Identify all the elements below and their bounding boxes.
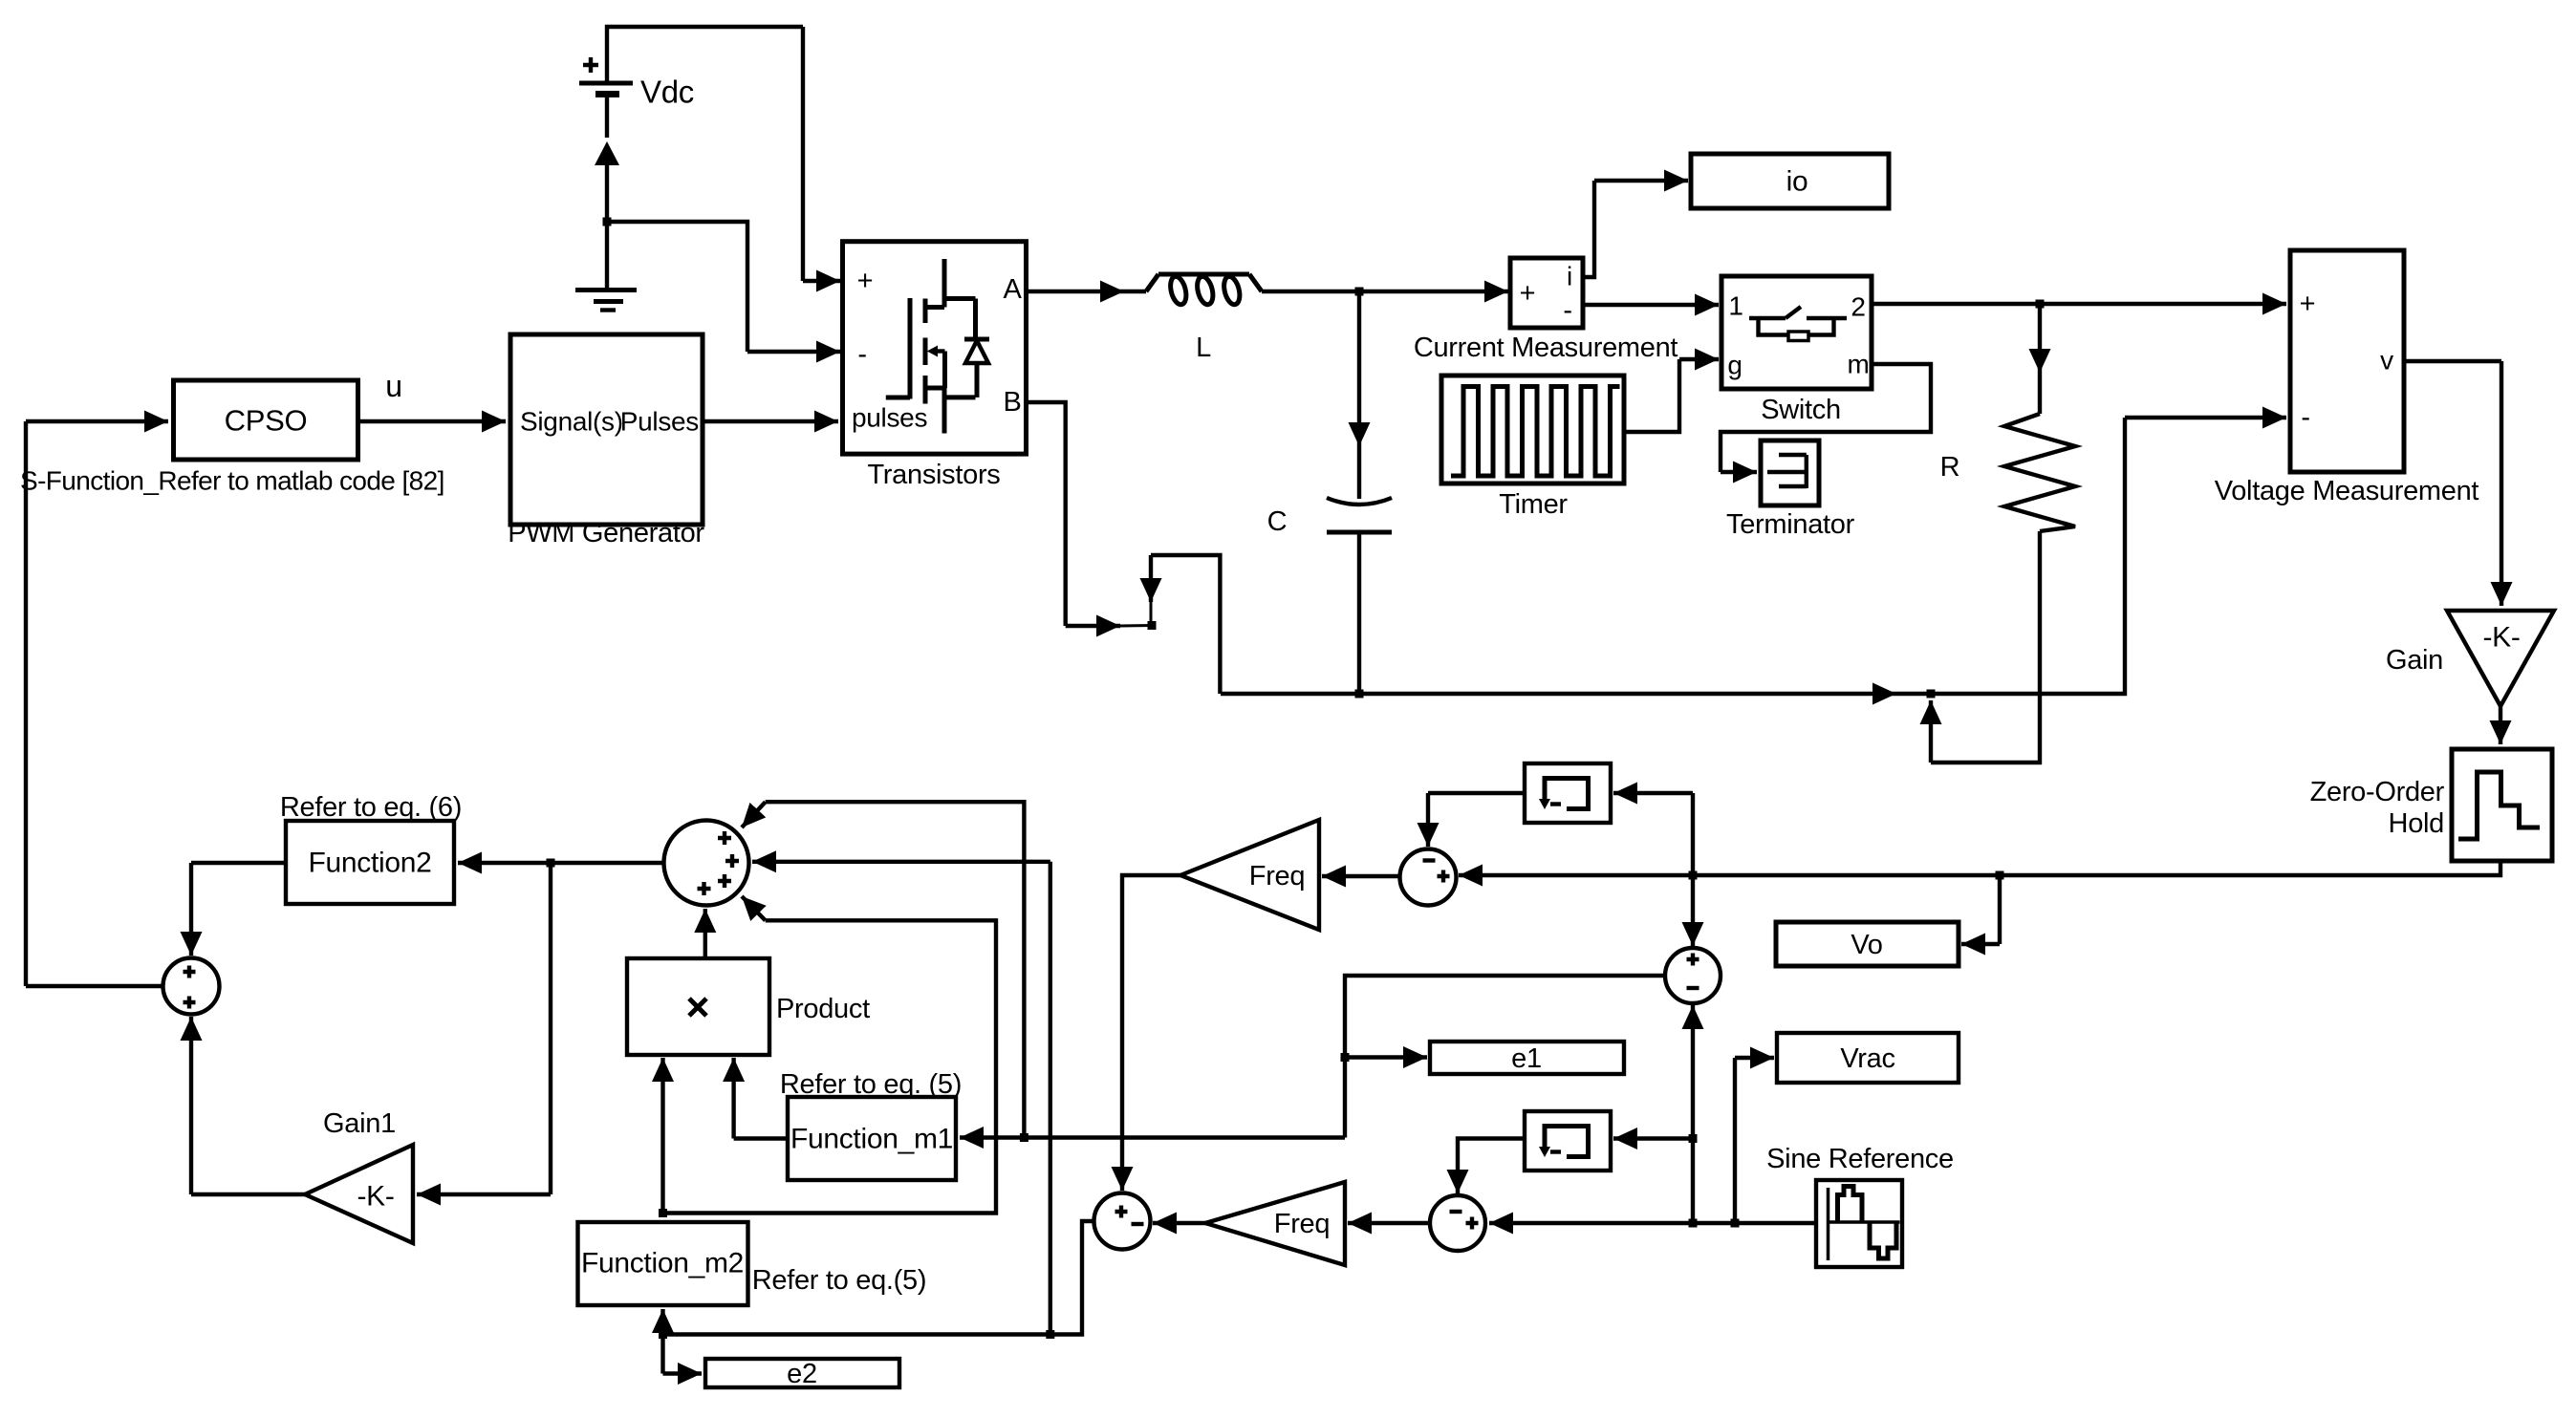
svg-text:Current Measurement: Current Measurement (1414, 333, 1678, 363)
svg-text:Gain: Gain (2386, 645, 2443, 676)
svg-text:Function_m1: Function_m1 (790, 1124, 953, 1155)
svg-text:Switch: Switch (1761, 395, 1841, 425)
svg-text:Refer to eq. (6): Refer to eq. (6) (280, 792, 462, 823)
svg-text:Product: Product (776, 994, 870, 1024)
svg-text:L: L (1196, 333, 1211, 363)
svg-text:Vdc: Vdc (640, 75, 694, 110)
svg-text:Voltage Measurement: Voltage Measurement (2215, 476, 2479, 506)
svg-text:io: io (1786, 166, 1808, 198)
svg-text:v: v (2380, 346, 2393, 376)
svg-text:2: 2 (1851, 292, 1865, 322)
svg-text:R: R (1940, 452, 1960, 483)
svg-text:-: - (1563, 295, 1571, 326)
svg-text:-: - (857, 339, 866, 370)
svg-text:Sine Reference: Sine Reference (1766, 1144, 1954, 1174)
svg-text:+: + (857, 266, 874, 296)
svg-text:Timer: Timer (1499, 489, 1568, 520)
svg-text:Vo: Vo (1851, 930, 1882, 960)
svg-text:Freq: Freq (1274, 1209, 1330, 1239)
svg-text:Freq: Freq (1249, 861, 1305, 892)
svg-text:Terminator: Terminator (1726, 509, 1855, 540)
svg-text:Function_m2: Function_m2 (581, 1248, 744, 1279)
svg-text:Zero-Order: Zero-Order (2310, 777, 2445, 807)
svg-text:Pulses: Pulses (620, 407, 699, 437)
svg-text:i: i (1567, 262, 1572, 291)
svg-text:e1: e1 (1511, 1043, 1542, 1074)
svg-text:-K-: -K- (2482, 622, 2520, 654)
svg-text:u: u (385, 369, 402, 403)
svg-text:g: g (1727, 351, 1742, 380)
svg-text:CPSO: CPSO (225, 404, 308, 438)
svg-text:1: 1 (1728, 291, 1743, 321)
svg-text:Hold: Hold (2389, 808, 2444, 839)
svg-text:+: + (1520, 278, 1536, 309)
svg-text:PWM Generator: PWM Generator (508, 518, 704, 548)
svg-text:-: - (2301, 402, 2309, 433)
svg-text:S-Function_Refer to matlab cod: S-Function_Refer to matlab code [82] (20, 466, 444, 496)
svg-text:B: B (1003, 387, 1021, 418)
svg-text:Refer to eq.(5): Refer to eq.(5) (752, 1265, 926, 1296)
svg-text:pulses: pulses (852, 403, 927, 433)
svg-text:A: A (1003, 274, 1022, 305)
svg-text:-K-: -K- (357, 1181, 394, 1213)
svg-text:Signal(s): Signal(s) (520, 407, 623, 437)
svg-text:e2: e2 (787, 1359, 817, 1389)
svg-text:C: C (1267, 506, 1288, 537)
svg-text:Vrac: Vrac (1840, 1043, 1894, 1074)
svg-text:Gain1: Gain1 (323, 1108, 396, 1139)
svg-text:Function2: Function2 (308, 848, 431, 879)
svg-text:Transistors: Transistors (867, 460, 1000, 490)
svg-text:+: + (2300, 289, 2316, 319)
svg-text:m: m (1847, 350, 1869, 379)
